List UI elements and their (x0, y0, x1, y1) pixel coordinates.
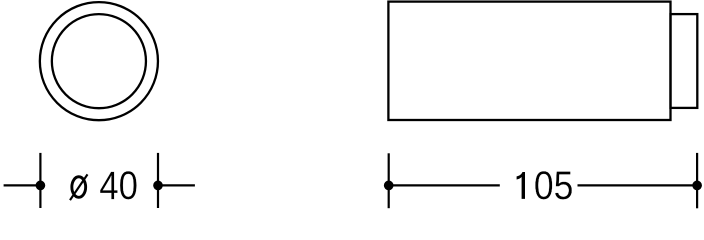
svg-text:05: 05 (534, 163, 574, 207)
svg-text:40: 40 (99, 163, 138, 208)
